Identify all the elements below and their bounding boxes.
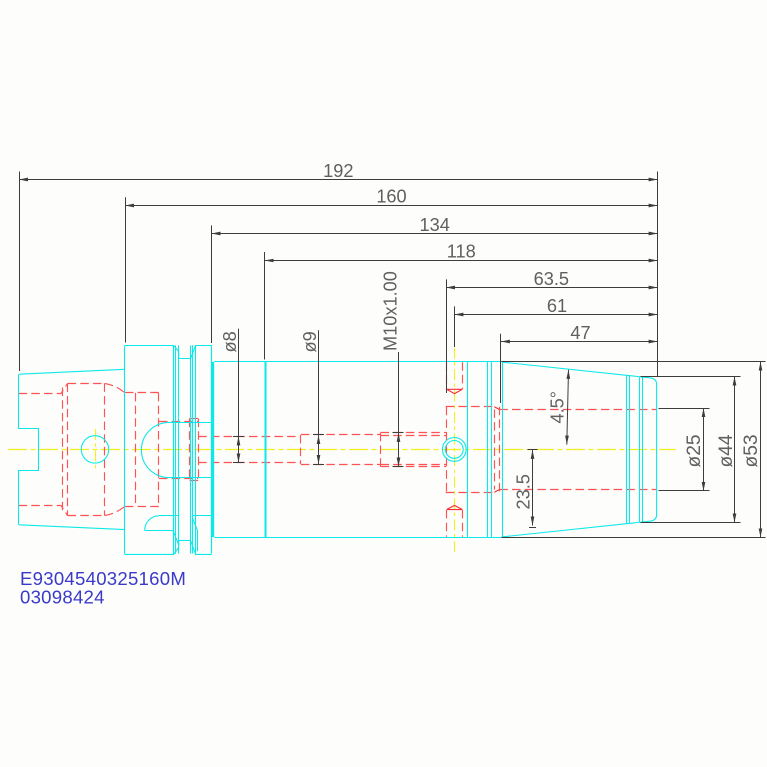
body ring 2 <box>487 362 489 537</box>
hidden bore dia9 top <box>301 434 381 436</box>
flange right face <box>211 345 213 553</box>
hidden radial hole top right <box>462 362 464 389</box>
dim 47 line <box>501 341 658 343</box>
svg-text:118: 118 <box>447 241 476 261</box>
drive slot lower line <box>145 530 173 532</box>
dim dia9 leader <box>318 330 320 435</box>
flange groove vertical b <box>178 345 180 553</box>
svg-text:ø8: ø8 <box>220 331 240 352</box>
dim dia44 <box>734 377 736 523</box>
ext dia44 top <box>641 376 741 378</box>
hidden neck bore top <box>159 421 198 423</box>
hidden counterbore bottom <box>446 492 495 494</box>
dim dia8 leader <box>238 329 240 437</box>
ext line right common <box>657 172 659 377</box>
flange top profile <box>125 346 212 359</box>
hidden vertical x159 <box>158 393 160 506</box>
HSK taper bottom <box>19 525 125 530</box>
svg-text:160: 160 <box>376 187 406 207</box>
drive slot diagonal left <box>173 530 179 545</box>
internal dome arc <box>141 422 169 477</box>
HSK taper top <box>19 369 125 374</box>
hidden bore back face <box>446 407 448 493</box>
svg-text:61: 61 <box>547 296 567 316</box>
hidden box verticals x198 <box>198 419 200 481</box>
svg-text:192: 192 <box>323 161 353 181</box>
nut ring 3 <box>639 377 641 523</box>
body ring 1 <box>467 362 469 537</box>
hidden bore dia9 left <box>300 435 302 464</box>
ext line 118 <box>264 252 266 360</box>
hidden thread M10 minor bottom <box>381 464 447 466</box>
flange groove vertical d <box>195 345 197 553</box>
dim 192 line <box>19 179 658 181</box>
drill point bottom <box>447 505 463 509</box>
hidden HSK bore bottom <box>19 506 68 516</box>
hidden bore dia8 bottom <box>198 462 301 464</box>
hidden collet bore top <box>499 409 656 411</box>
hidden vertical x135 <box>135 393 137 506</box>
body joint <box>265 362 267 537</box>
svg-text:47: 47 <box>570 323 590 343</box>
hidden step bottom chamfer <box>494 490 499 493</box>
ext line 61 <box>454 306 456 347</box>
drive slot arc <box>145 516 159 531</box>
hidden box bottom <box>190 480 199 482</box>
nut ring 1 <box>626 375 628 524</box>
hidden bore dia9 bottom <box>301 464 381 466</box>
dim 118 line <box>265 260 658 262</box>
dim dia53 <box>760 362 762 538</box>
hidden box top <box>190 418 199 420</box>
ext dia53 bottom <box>501 537 765 539</box>
dome top line <box>169 422 212 424</box>
hidden flange bore bottom <box>125 506 159 508</box>
tick M10 bottom <box>393 466 404 468</box>
svg-text:134: 134 <box>420 215 450 235</box>
dim 134 line <box>212 233 658 235</box>
hidden counterbore top <box>446 406 495 408</box>
hidden neck bore bottom <box>159 478 198 480</box>
dim dia25 <box>703 408 705 491</box>
ext line 160 <box>125 197 127 342</box>
ext line 192 left <box>19 172 21 372</box>
tick M10 top <box>393 432 404 434</box>
dim 61 line <box>454 314 657 316</box>
hidden thread M10 left <box>380 433 382 467</box>
hidden collet bore bottom <box>499 489 656 491</box>
drive slot right vertical <box>197 530 199 551</box>
drill point top <box>447 389 463 393</box>
nose taper top <box>502 362 657 537</box>
svg-text:ø9: ø9 <box>300 331 320 352</box>
dim 63.5 line <box>446 287 658 289</box>
hidden bore step vertical 1 <box>67 383 69 515</box>
ext line 47 <box>500 334 502 403</box>
tick 23.5 top <box>528 449 538 451</box>
tick dia9 top <box>313 434 324 436</box>
drive slot diagonal right <box>193 518 198 530</box>
hidden cone arc bottom <box>105 506 125 515</box>
centerline main axis <box>8 449 676 451</box>
flange groove vertical a2 <box>175 345 177 553</box>
nut ring 4 <box>642 377 644 522</box>
hidden thread M10 minor top <box>381 435 447 437</box>
drive slot upper line <box>159 515 179 517</box>
flange left face <box>124 346 126 555</box>
svg-text:03098424: 03098424 <box>20 587 105 608</box>
body ring 4 <box>502 362 504 537</box>
dim 23.5 <box>532 450 534 526</box>
body bottom edge <box>214 537 501 539</box>
hidden bore step vertical 3 <box>104 383 106 515</box>
ext line 134 <box>211 225 213 343</box>
svg-text:M10x1.00: M10x1.00 <box>381 271 401 351</box>
body top edge <box>214 361 501 363</box>
hidden cone arc top <box>105 383 125 393</box>
centerline HSK circle vertical <box>95 429 97 470</box>
hidden thread M10 major top <box>381 432 447 434</box>
cross hole inner circle <box>445 441 463 459</box>
hidden box verticals x189 <box>189 419 191 481</box>
hidden bore step vertical 2 <box>62 388 64 512</box>
svg-text:ø25: ø25 <box>684 434 705 467</box>
dome bottom line <box>169 477 212 479</box>
body start face <box>212 362 214 537</box>
ext line 63.5 <box>446 279 448 393</box>
svg-text:63.5: 63.5 <box>534 269 569 289</box>
hidden thread M10 major bottom <box>381 466 447 468</box>
svg-text:4.5°: 4.5° <box>548 391 568 424</box>
body ring 3 <box>491 362 493 537</box>
centerline cross-hole vertical <box>454 348 456 553</box>
hidden flange bore top <box>125 392 159 394</box>
hidden bore dia8 top <box>198 436 301 438</box>
tick dia8 top <box>233 436 244 438</box>
hidden step cone edge 2 <box>499 407 501 493</box>
hidden step top chamfer <box>494 407 499 410</box>
nut ring 2 <box>629 376 631 524</box>
flange bottom profile <box>125 541 212 555</box>
dim 4.5deg <box>567 370 569 445</box>
tick 23.5 bottom <box>529 527 536 529</box>
svg-text:23.5: 23.5 <box>514 474 534 509</box>
ext dia44 bottom <box>641 522 741 524</box>
ext dia25 top <box>659 408 710 410</box>
flange groove vertical c2 <box>192 345 194 553</box>
dim 160 line <box>125 205 658 207</box>
hidden radial hole bottom right <box>462 510 464 537</box>
ext dia25 bottom <box>659 490 710 492</box>
drive slot right line <box>193 515 212 517</box>
cross hole outer circle <box>442 438 466 462</box>
hidden step cone edge 1 <box>494 409 496 489</box>
flange groove vertical c <box>190 345 192 553</box>
hidden HSK bore top <box>19 383 68 393</box>
svg-text:ø44: ø44 <box>716 434 737 467</box>
HSK shank left face with slot <box>19 374 39 525</box>
dim M10 leader <box>398 352 400 433</box>
tick dia9 bottom <box>313 464 324 466</box>
flange groove vertical a <box>173 345 175 554</box>
hidden radial hole top left <box>446 362 448 389</box>
ext dia53 top <box>501 361 765 363</box>
hidden clamp bore top <box>68 383 105 385</box>
tick dia8 bottom <box>233 462 244 464</box>
svg-text:ø53: ø53 <box>741 434 762 467</box>
hidden radial hole bottom left <box>446 510 448 537</box>
hidden clamp bore bottom <box>68 515 105 517</box>
drive hole circle <box>81 436 108 463</box>
